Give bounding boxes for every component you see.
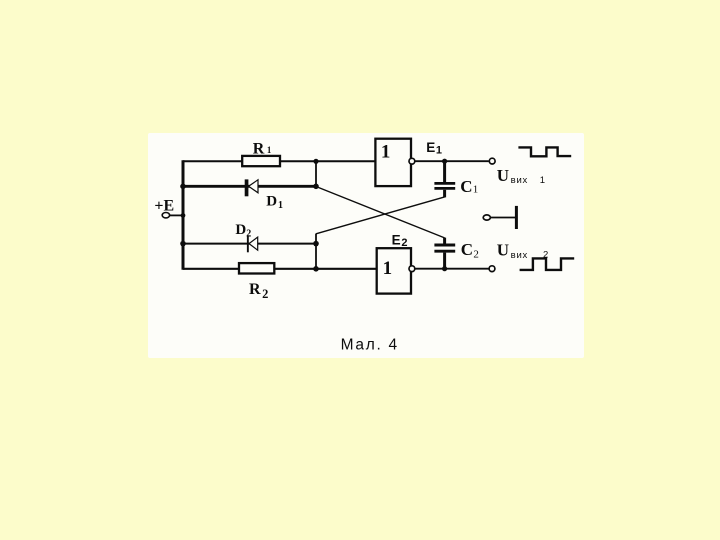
waveform output 1 [518,147,571,156]
svg-text:2: 2 [473,249,479,261]
svg-text:E2: E2 [392,233,408,249]
terminal +E [162,213,169,218]
node dot D2 left on rail [180,241,186,247]
svg-text:C: C [460,177,472,196]
svg-text:U: U [497,241,509,260]
wire vertical node x=316 upper [315,160,317,187]
node dot gate2 input [313,266,319,272]
wire diode D2 row [183,243,316,245]
resistor R2 [239,263,274,273]
svg-text:вих: вих [511,175,529,186]
svg-text:1: 1 [381,141,391,162]
probe terminal (common) [483,206,516,229]
node dot D1 right [313,184,319,190]
capacitor C2 top stub [443,238,446,244]
wire gate U1 output [415,160,489,162]
svg-text:E1: E1 [426,140,442,157]
svg-text:U: U [497,166,509,185]
diode D2 [247,235,258,252]
svg-text:Мал. 4: Мал. 4 [341,337,399,354]
capacitor C1 bottom stub [443,190,446,198]
wire +E stub [170,214,184,216]
svg-text:C: C [461,240,473,259]
node dot D2 right [313,241,319,247]
wire left supply rail [182,160,185,269]
terminal output 2 [489,266,495,272]
wire vertical node x=316 lower [315,234,317,270]
capacitor C1 [434,183,455,188]
svg-text:вих: вих [511,250,529,261]
op-amp gate U2 (inverter "1") [377,248,411,293]
svg-text:1: 1 [383,258,393,279]
capacitor C1 top stub [443,161,446,182]
node dot R1/gate1 input [313,159,318,164]
op-amp gate U1 (inverter "1") [375,139,411,186]
gate U2 output bubble [409,266,415,272]
svg-text:R2: R2 [249,281,268,301]
wire gate U2 output [415,268,489,270]
label Uvih2 [497,241,548,261]
wire resistor R2 row to gate2 input [183,268,377,270]
resistor R1 [242,156,280,166]
wire cross diagonal from C1 to gate2 input node [316,197,445,234]
svg-text:D1: D1 [266,194,283,212]
node dot D1 left on rail [180,184,186,190]
diode D1 [245,179,258,196]
node dot gate1 output / C1 [442,159,447,164]
terminal output 1 [489,158,495,164]
wire diode D1 row [183,185,316,188]
svg-text:1: 1 [473,184,479,196]
svg-text:1: 1 [540,175,545,186]
node dot +E on rail [181,213,186,218]
capacitor C2 bottom stub [443,253,446,270]
wire top rail to gate1 input [183,160,376,162]
wire cross diagonal from D1 node to C2 [316,187,445,238]
capacitor C2 [434,245,455,251]
label Uvih1 [497,166,545,186]
svg-text:D2: D2 [235,222,251,240]
gate U1 output bubble [409,158,415,164]
waveform output 2 [520,258,575,270]
node dot gate2 output / C2 [442,266,447,271]
